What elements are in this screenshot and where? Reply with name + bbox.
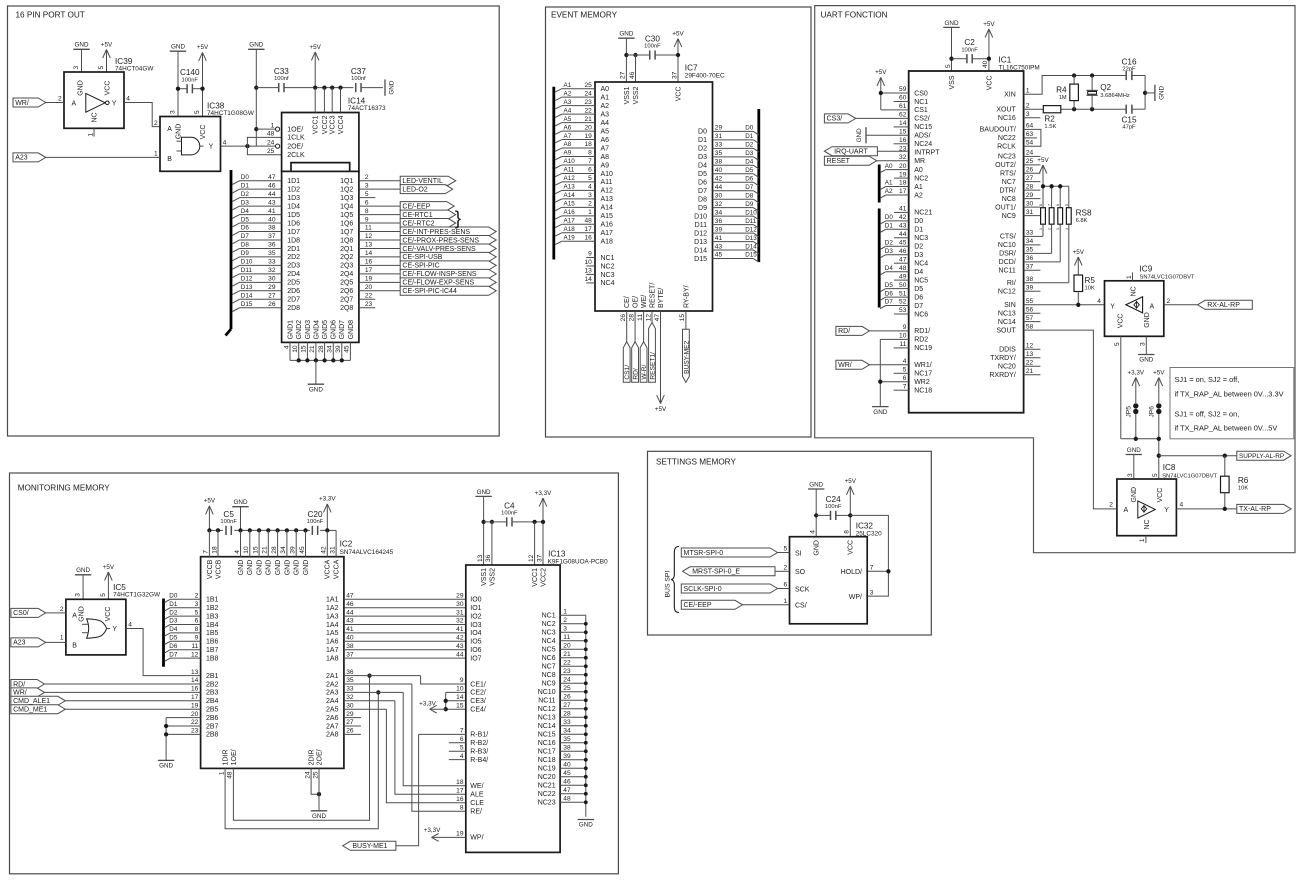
svg-text:6: 6 [195,618,199,625]
wire bus D0 to IC1 [880,214,909,224]
svg-text:10K: 10K [1238,486,1248,492]
svg-text:21: 21 [309,345,316,353]
svg-text:NC20: NC20 [998,364,1016,371]
stub IC14 1Q3 [359,197,375,199]
svg-text:NC4: NC4 [601,280,615,287]
svg-text:A4: A4 [601,120,610,127]
svg-text:BUSY-ME1: BUSY-ME1 [352,843,387,850]
svg-text:48: 48 [227,771,234,779]
svg-text:1A8: 1A8 [326,655,339,662]
svg-text:36: 36 [268,242,276,249]
svg-text:29: 29 [1026,192,1034,199]
svg-text:45: 45 [344,345,351,353]
wire bus A8 to IC7 [555,141,595,151]
junction VCC rail [676,53,680,57]
svg-text:2B4: 2B4 [206,698,219,705]
svg-text:5: 5 [903,367,907,374]
svg-text:100nF: 100nF [644,44,661,50]
svg-text:NC10: NC10 [998,242,1016,249]
junction HOLD/ [886,569,890,573]
svg-text:C33: C33 [274,67,289,76]
junction GND pin [340,358,344,362]
net flag RESET [824,156,876,165]
wire IC38 pin 4 to IC14 clock loop [221,145,276,147]
svg-text:5: 5 [784,546,788,553]
svg-text:D14: D14 [745,243,757,250]
junction IC2 rail VCCB1 [207,528,211,532]
svg-text:RD/: RD/ [838,328,850,335]
svg-text:38: 38 [346,643,354,650]
svg-text:22: 22 [584,107,592,114]
net flag W-R/ [640,342,648,383]
svg-text:2Q2: 2Q2 [340,254,353,261]
svg-text:4: 4 [1065,228,1069,230]
wire IC14 2Q4 to flag CE/-FLOW-INSP-SENS [359,273,400,275]
svg-text:VCC: VCC [848,540,855,555]
svg-text:NC18: NC18 [914,388,932,395]
svg-text:28: 28 [271,546,278,554]
svg-text:20: 20 [365,284,373,291]
svg-text:A: A [1124,507,1129,514]
svg-text:RI/: RI/ [1007,280,1016,287]
svg-text:8: 8 [195,626,199,633]
wire bus D7 to IC2 1B8 [165,651,201,661]
svg-text:INTRPT: INTRPT [914,150,940,157]
svg-text:21: 21 [262,546,269,554]
junction NC tie [584,630,588,634]
wire IC14 1Q7 to flag CE/-INT-PRES-SENS [359,231,400,233]
svg-text:30: 30 [456,601,464,608]
svg-text:D3: D3 [241,199,250,206]
svg-text:D5: D5 [914,286,923,293]
wire IO3 IC2 to IC13 [344,624,466,626]
svg-text:47pF: 47pF [1122,125,1136,131]
svg-text:NC5: NC5 [542,647,556,654]
net flag MTSR-SPI-0 [681,548,777,557]
stub IC1 NC pin [894,279,909,281]
capacitor C2 100nF [952,38,989,63]
svg-text:3: 3 [365,182,369,189]
svg-text:6: 6 [588,167,592,174]
svg-text:34: 34 [280,546,287,554]
svg-text:23: 23 [563,668,571,675]
svg-text:38: 38 [1026,276,1034,283]
net flag TX-AL-RP [1237,504,1291,513]
svg-text:35: 35 [1026,247,1034,254]
svg-text:27: 27 [1026,175,1034,182]
svg-text:GND1: GND1 [287,320,294,340]
wire MTSR to IC32 SI [778,552,790,554]
svg-text:2A4: 2A4 [326,698,339,705]
wire bus D6 to IC14 [232,225,282,236]
bus A1-A19 input IC7 [552,87,555,260]
svg-text:NC14: NC14 [538,723,556,730]
svg-text:NC22: NC22 [998,135,1016,142]
svg-text:12: 12 [645,314,652,322]
svg-text:R-B2/: R-B2/ [470,740,488,747]
junction NC tie [584,681,588,685]
svg-text:NC8: NC8 [1002,196,1016,203]
svg-text:R6: R6 [1238,476,1249,485]
svg-text:1: 1 [1126,275,1133,279]
svg-text:D7: D7 [698,188,707,195]
svg-text:GND: GND [159,763,173,770]
svg-text:46: 46 [268,182,276,189]
svg-text:D11: D11 [695,222,707,229]
svg-text:+5V: +5V [983,21,995,28]
svg-text:2: 2 [588,201,592,208]
svg-text:36: 36 [715,218,723,225]
junction NC tie [584,775,588,779]
net flag IRQ-UART [824,147,877,156]
svg-text:TX-AL-RP: TX-AL-RP [1239,506,1271,513]
svg-text:VCC: VCC [200,125,207,140]
svg-text:K9F1G08UOA-PCB0: K9F1G08UOA-PCB0 [548,559,608,566]
svg-text:VCC2: VCC2 [322,115,329,134]
stub IC1 right pin [1024,321,1041,323]
ground GND above IC38 pin 3 [170,44,186,117]
memory IC7 29F400-70EC [595,63,725,321]
stub IC1 right pin [1024,290,1041,292]
svg-text:GND: GND [249,42,263,49]
junction IC2 rail GND [248,528,252,532]
capacitor C4 100nF [501,501,518,526]
net flag BUSY-ME2 [683,329,691,382]
svg-text:CE/-EEP: CE/-EEP [402,203,430,210]
junction CE4 [444,707,448,711]
svg-text:63: 63 [1026,131,1034,138]
stub IC1 NC15 [894,126,909,128]
svg-text:+3,3V: +3,3V [424,827,441,834]
svg-text:26: 26 [620,314,627,322]
wire IC7 OE/ to flag RD/ [634,311,636,342]
svg-text:+5V: +5V [197,44,209,51]
svg-text:NC20: NC20 [538,774,556,781]
svg-text:+5V: +5V [845,478,857,485]
wire IC7 D0 to bus [713,125,759,135]
net flag CMD_ALE1 [11,696,65,705]
svg-text:3.6864MHz: 3.6864MHz [1100,93,1130,99]
wire IC14 2Q3 to flag CE-SPI-PIC [359,264,400,266]
junction WR2 gnd [878,380,882,384]
ground GND right of C37 [385,79,396,95]
svg-text:12: 12 [191,651,199,658]
net flag SCLK-SPI-0 [681,584,777,593]
svg-text:27: 27 [563,702,571,709]
svg-text:D6: D6 [885,290,894,297]
svg-text:1D8: 1D8 [287,237,300,244]
svg-text:43: 43 [346,618,354,625]
svg-text:C2: C2 [964,38,975,47]
svg-text:1Q7: 1Q7 [340,229,353,236]
wire IC13 VCC1 stub [534,522,536,565]
wire IC7 CE/ to flag CS1/ [626,311,628,342]
svg-text:D4: D4 [745,159,754,166]
svg-text:D0: D0 [914,218,923,225]
svg-text:CS1/: CS1/ [624,365,631,380]
wire bus D0 to IC2 1B1 [165,593,201,603]
supply +5V at IC1 CS0/CS1 [875,69,887,110]
junction R6 TX [1223,507,1227,511]
svg-text:NC23: NC23 [538,800,556,807]
svg-text:MR: MR [914,158,925,165]
svg-text:53: 53 [899,307,907,314]
wire BAUDOUT/ RCLK loop [1024,129,1041,146]
svg-text:NC14: NC14 [998,319,1016,326]
svg-text:CMD_ME1: CMD_ME1 [13,707,47,714]
svg-text:IO3: IO3 [470,622,481,629]
svg-text:39: 39 [1026,284,1034,291]
svg-text:46: 46 [346,601,354,608]
svg-text:A1: A1 [885,180,893,187]
svg-text:8: 8 [844,530,851,534]
svg-text:2: 2 [784,565,788,572]
svg-text:VCC1: VCC1 [313,115,320,134]
svg-text:}: } [455,209,461,230]
svg-text:CE4/: CE4/ [470,707,486,714]
svg-text:D3: D3 [169,618,178,625]
svg-text:MTSR-SPI-0: MTSR-SPI-0 [684,550,724,557]
stub IC13 R-B4/ [449,759,466,761]
junction CE3 [444,699,448,703]
svg-text:2Q3: 2Q3 [340,263,353,270]
svg-text:NC2: NC2 [914,175,928,182]
svg-text:22: 22 [191,719,199,726]
svg-text:RS8: RS8 [1076,209,1092,218]
wire IC14 1Q6 to flag CE/-RTC2 [359,222,400,224]
svg-text:29: 29 [346,711,354,718]
wire IC7 BYTE/ to +5V [660,311,662,404]
svg-text:D7: D7 [885,299,894,306]
svg-text:28: 28 [563,711,571,718]
svg-text:NC23: NC23 [998,154,1016,161]
wire bus D2 to IC14 [232,191,282,202]
stub IC7 NC2 [584,259,595,266]
svg-text:D7: D7 [914,303,923,310]
svg-text:NC9: NC9 [542,681,556,688]
svg-text:47: 47 [899,256,907,263]
wire SOUT to IC8 A [1024,330,1117,509]
svg-text:1B8: 1B8 [206,655,219,662]
svg-text:41: 41 [899,206,907,213]
svg-text:D3: D3 [914,252,923,259]
svg-text:D10: D10 [694,213,707,220]
svg-text:6.8K: 6.8K [1076,218,1088,224]
stub IC1 NC pin [894,211,909,213]
junction Q2 top [1090,73,1094,77]
wire RD2 WR2 to ground [880,339,908,406]
svg-text:D2: D2 [885,240,894,247]
svg-text:NC3: NC3 [601,272,615,279]
svg-text:47: 47 [563,787,571,794]
svg-text:R-B4/: R-B4/ [470,757,488,764]
svg-text:5: 5 [588,175,592,182]
svg-text:D1: D1 [241,182,250,189]
section frame UART FONCTION [815,6,1295,553]
svg-text:IC9: IC9 [1140,264,1153,273]
svg-text:+5V: +5V [672,30,684,37]
svg-text:RD/: RD/ [633,368,640,380]
svg-text:VSS2: VSS2 [633,86,640,104]
svg-text:2B5: 2B5 [206,707,219,714]
net flag CS3/ [824,114,855,123]
wire VSS2 stub [635,55,637,82]
wire IC7 D12 to bus [713,226,759,236]
wire bus A6 to IC7 [555,124,595,134]
svg-text:29F400-70EC: 29F400-70EC [685,72,725,79]
svg-text:4: 4 [903,358,907,365]
svg-text:GND: GND [171,44,185,51]
svg-text:16: 16 [899,137,907,144]
wire bus D5 to IC1 [880,282,909,292]
svg-text:56: 56 [1026,306,1034,313]
junction NC tie [584,647,588,651]
svg-text:VSS2: VSS2 [489,568,496,586]
net flag CE/-PROX-PRES-SENS [400,235,496,244]
svg-text:RY-BY/: RY-BY/ [683,285,690,308]
svg-text:1A2: 1A2 [326,605,339,612]
svg-text:GND: GND [284,560,291,576]
junction IC2 rail VCCA1 [325,528,329,532]
svg-text:A5: A5 [601,128,610,135]
wire IC7 D5 to bus [713,167,759,177]
svg-text:27: 27 [346,719,354,726]
wire IC14 GND pins to ground [315,360,317,384]
svg-text:5: 5 [945,64,952,68]
svg-text:24: 24 [304,771,311,779]
svg-text:4: 4 [126,96,130,103]
wire bus D1 to IC2 1B2 [165,601,201,611]
svg-text:3: 3 [588,192,592,199]
svg-text:RX-AL-RP: RX-AL-RP [1207,302,1240,309]
latch IC14 74ACT16373 upper section [267,88,386,172]
svg-text:5: 5 [194,110,201,114]
svg-text:A19: A19 [564,234,576,241]
svg-text:14: 14 [191,677,199,684]
svg-text:D6: D6 [169,643,178,650]
svg-text:VCC: VCC [105,81,112,96]
stub IC1 right pin [1024,155,1041,157]
ground GND below 2B8 [158,760,174,769]
svg-text:IC2: IC2 [340,540,353,549]
svg-text:2: 2 [60,606,64,613]
svg-text:RESET: RESET [827,158,851,165]
svg-text:1: 1 [218,771,225,775]
svg-text:GND: GND [312,813,326,820]
ground GND at ADS/ [856,127,866,143]
junction VCC rail [987,57,991,61]
svg-text:48: 48 [267,131,275,138]
wire 2B6 2B7 2B8 to ground [166,718,201,761]
net flag WR/ monitoring [11,688,45,697]
svg-text:WE/: WE/ [641,295,648,308]
svg-text:6: 6 [784,582,788,589]
svg-text:33: 33 [563,719,571,726]
svg-text:1Q2: 1Q2 [340,186,353,193]
net flag CE/-INT-PRES-SENS [400,227,496,236]
svg-text:1Q3: 1Q3 [340,195,353,202]
svg-text:GND: GND [945,20,959,27]
svg-text:GND5: GND5 [322,320,329,340]
wire IC39 pin 4 to IC38 pin 2 [124,103,160,127]
svg-text:NC10: NC10 [538,689,556,696]
wire CE2 CE3 CE4 tie [446,692,466,709]
ground GND above IC7 [618,31,634,82]
svg-text:+3,3V: +3,3V [419,701,436,708]
junction 2B8 gnd [164,732,168,736]
stub IC1 right pin [1024,181,1041,183]
svg-text:23: 23 [191,728,199,735]
svg-text:2B2: 2B2 [206,681,219,688]
junction VCC1 [313,85,317,89]
svg-text:VCC: VCC [675,87,682,102]
svg-text:5: 5 [1065,204,1069,206]
svg-text:3: 3 [75,593,82,597]
svg-text:LED-O2: LED-O2 [402,186,427,193]
svg-text:1Q1: 1Q1 [340,178,353,185]
svg-text:IO4: IO4 [470,630,481,637]
svg-text:GND: GND [294,560,301,576]
svg-text:2A2: 2A2 [326,681,339,688]
svg-text:CS/: CS/ [795,603,807,610]
svg-text:36: 36 [346,669,354,676]
svg-text:CS3/: CS3/ [827,116,843,123]
junction GND pin [305,358,309,362]
stub IC1 right pin [1024,374,1041,376]
net flag CMD_ME1 [11,705,65,714]
wire bus A1 to IC7 [555,82,595,92]
wire IC14 1Q1 to flag LED-VENTIL [359,180,400,182]
net flag RESET1/ [649,323,657,383]
svg-text:D9: D9 [745,201,754,208]
supply +3,3V at CE4 [419,701,446,714]
svg-text:CS1: CS1 [914,107,928,114]
net flag CE/-RTC2 [400,219,456,228]
svg-text:37: 37 [1026,263,1034,270]
svg-text:TL16C750IPM: TL16C750IPM [999,64,1040,71]
capacitor C37 100nf [351,67,383,92]
svg-text:4: 4 [223,139,227,146]
supply +5V above IC7 [672,30,684,82]
svg-text:SCK: SCK [795,586,810,593]
svg-text:A2: A2 [564,90,572,97]
svg-text:MONITORING MEMORY: MONITORING MEMORY [18,484,111,493]
svg-text:R5: R5 [1085,276,1096,285]
junction NC tie [584,673,588,677]
svg-text:RD1/: RD1/ [914,328,930,335]
wire bus D7 to IC1 [880,299,909,309]
svg-text:A23: A23 [15,155,28,162]
svg-text:D4: D4 [698,163,707,170]
svg-text:19: 19 [899,171,907,178]
wire RS8 r4 to RI/ [1024,224,1069,283]
wire IC14 1Q2 to flag LED-O2 [359,188,400,190]
svg-text:15: 15 [456,702,464,709]
svg-text:16 PIN PORT OUT: 16 PIN PORT OUT [16,11,85,20]
svg-text:GND: GND [477,489,491,496]
ground GND above IC13 [475,489,491,565]
wire IC7 D3 to bus [713,150,759,160]
wire bus D2 to IC2 1B3 [165,609,201,619]
svg-text:D3: D3 [885,248,894,255]
wire IC14 2Q5 to flag CE/-FLOW-EXP-SENS [359,281,400,283]
svg-text:Y: Y [1110,304,1115,311]
wire XIN to crystal rail [1024,76,1146,95]
svg-text:GND6: GND6 [331,320,338,340]
svg-text:A12: A12 [564,175,576,182]
latch IC14 GND pins [290,342,350,360]
svg-text:GND: GND [814,540,821,556]
